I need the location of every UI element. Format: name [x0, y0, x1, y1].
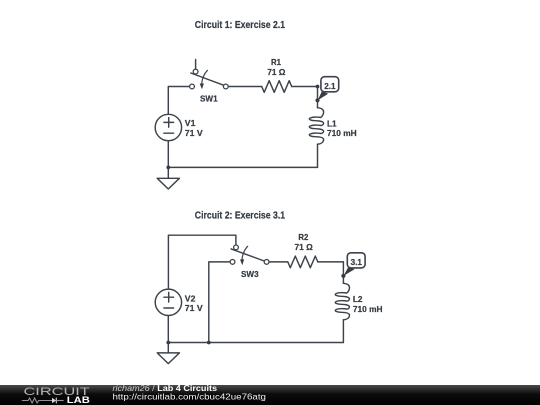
CircuitLab logo resistor-diode glyph — [22, 398, 64, 404]
wire V2 bottom to rail — [167, 316, 169, 343]
wire SW3 right terminal to R2 — [269, 261, 288, 263]
wire L1 to bottom rail — [317, 144, 319, 167]
svg-text:R1: R1 — [271, 57, 281, 67]
svg-text:V1: V1 — [185, 118, 196, 128]
svg-text:L1: L1 — [327, 119, 337, 129]
voltage source V2 — [155, 289, 181, 315]
svg-text:2.1: 2.1 — [324, 81, 336, 91]
voltage source V1 — [155, 114, 181, 140]
resistor R2 — [288, 256, 318, 268]
svg-text:71 V: 71 V — [185, 303, 203, 313]
wire bottom rail circuit 2 — [168, 342, 343, 344]
wire bottom rail circuit 1 — [168, 166, 317, 168]
ground stub circuit 2 — [167, 343, 169, 353]
svg-text:Circuit 1: Exercise 2.1: Circuit 1: Exercise 2.1 — [195, 20, 286, 31]
svg-text:LAB: LAB — [67, 395, 90, 405]
wire SW3 left throw to mid rail — [209, 262, 230, 343]
footer bar — [0, 385, 540, 405]
ground symbol circuit 2 — [157, 353, 179, 364]
svg-text:710 mH: 710 mH — [327, 128, 357, 138]
svg-text:SW1: SW1 — [200, 93, 218, 103]
svg-text:71 Ω: 71 Ω — [295, 242, 313, 252]
svg-text:71 V: 71 V — [185, 128, 203, 138]
svg-text:3.1: 3.1 — [351, 257, 363, 267]
resistor R1 — [262, 81, 292, 93]
ground symbol circuit 1 — [157, 178, 179, 189]
svg-text:SW3: SW3 — [241, 269, 259, 279]
node flag 2.1 — [318, 77, 339, 101]
junction dot mid rail bottom — [207, 341, 211, 345]
svg-text:710 mH: 710 mH — [353, 304, 383, 314]
junction dot circuit 2 ground — [166, 341, 170, 345]
wire V1 top to SW1 left terminal — [168, 87, 189, 115]
wire V1 bottom to rail — [167, 141, 169, 168]
svg-text:Circuit 2: Exercise 3.1: Circuit 2: Exercise 3.1 — [195, 210, 286, 221]
inductor L1 coil — [309, 108, 323, 145]
wire node 3.1 corner down to L2 — [342, 262, 344, 283]
svg-text:71 Ω: 71 Ω — [267, 67, 285, 77]
wire top rail circuit 2 — [168, 235, 236, 288]
switch SW1 — [190, 60, 229, 90]
wire SW1 right terminal to R1 — [228, 86, 262, 88]
junction dot node 2.1 anchor — [315, 98, 319, 102]
junction dot circuit 1 ground — [166, 166, 170, 170]
node flag 3.1 — [344, 253, 365, 276]
svg-text:L2: L2 — [353, 294, 363, 304]
junction dot node 2.1 corner — [316, 85, 320, 89]
ground stub circuit 1 — [167, 167, 169, 178]
wire node 2.1 corner down to L1 — [317, 87, 319, 108]
wire L2 to bottom rail — [342, 320, 344, 343]
wire R1 to node 2.1 corner — [292, 86, 318, 88]
inductor L2 coil — [335, 283, 349, 320]
svg-text:http://circuitlab.com/cbuc42ue: http://circuitlab.com/cbuc42ue76atg — [113, 392, 267, 402]
svg-text:R2: R2 — [298, 232, 308, 242]
wire R2 to node 3.1 corner — [318, 261, 344, 263]
junction dot node 3.1 anchor — [341, 274, 345, 278]
svg-text:V2: V2 — [185, 293, 196, 303]
switch SW3 — [230, 245, 269, 265]
